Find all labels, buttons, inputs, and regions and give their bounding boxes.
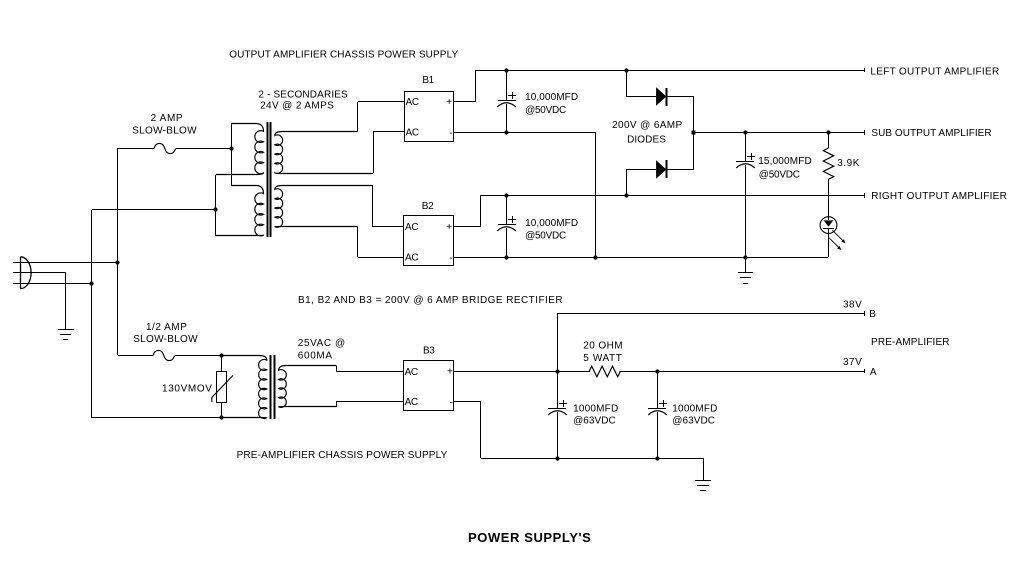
node B1 minus joins zero rail (593, 255, 597, 259)
node T1 primary top junction (229, 146, 233, 150)
wire C2 bottom lead (506, 228, 508, 257)
node diode output (692, 131, 696, 135)
ground (mains plug) (58, 330, 74, 340)
svg-text:@63VDC: @63VDC (573, 416, 616, 427)
node C2 top (504, 193, 508, 197)
wire hot to fuse F1 (118, 148, 154, 150)
terminal tick sub output (864, 130, 866, 135)
capacitor C2 10,000MFD (497, 216, 516, 231)
wire B1 minus drop (595, 133, 597, 257)
svg-text:15,000MFD: 15,000MFD (758, 156, 812, 167)
svg-text:AC: AC (406, 97, 419, 108)
ground (pre-amp supply) (695, 481, 711, 491)
wire hot vertical bus (117, 148, 119, 355)
svg-text:600MA: 600MA (298, 351, 333, 362)
bridge rectifier B1 (405, 92, 454, 142)
transformer T1 primary winding upper (216, 124, 264, 175)
node R1 top (826, 130, 830, 134)
wire B3 plus to A rail (454, 371, 864, 373)
wire C3 bottom lead (745, 165, 747, 257)
svg-text:RIGHT OUTPUT AMPLIFIER: RIGHT OUTPUT AMPLIFIER (871, 191, 1007, 202)
node C5 bottom (655, 456, 659, 460)
svg-text:200V @ 6AMP: 200V @ 6AMP (612, 120, 682, 131)
svg-text:B: B (869, 309, 876, 320)
svg-text:37V: 37V (843, 357, 862, 368)
svg-text:1000MFD: 1000MFD (672, 404, 717, 415)
svg-text:130VMOV: 130VMOV (162, 384, 213, 395)
svg-text:AC: AC (405, 397, 418, 408)
svg-text:OUTPUT AMPLIFIER CHASSIS POWER: OUTPUT AMPLIFIER CHASSIS POWER SUPPLY (229, 50, 458, 61)
node MOV bottom junction (219, 415, 223, 419)
wire neutral to T2 primary (92, 417, 259, 419)
svg-text:-: - (449, 253, 452, 264)
wire B1 minus rail (454, 132, 596, 134)
LED D3 (820, 217, 845, 250)
svg-text:1/2 AMP: 1/2 AMP (146, 322, 187, 333)
svg-text:-: - (450, 398, 453, 409)
svg-text:+: + (446, 97, 452, 108)
svg-text:AC: AC (405, 367, 418, 378)
varistor MOV 130V (212, 355, 233, 418)
wire 38V B rail (558, 313, 864, 315)
wire R1 top lead (828, 133, 830, 148)
node C1 top (504, 68, 508, 72)
wire T1 sec1 bottom to B1 AC2 (373, 132, 375, 173)
wire preamp zero rail (481, 458, 703, 460)
svg-text:24V @ 2 AMPS: 24V @ 2 AMPS (260, 101, 334, 112)
wire fuse F2 to T2 primary (175, 355, 259, 357)
AC plug P1 (21, 257, 32, 289)
svg-text:10,000MFD: 10,000MFD (525, 218, 578, 229)
node 38V takeoff (555, 369, 559, 373)
svg-text:3.9K: 3.9K (837, 158, 860, 169)
svg-text:2 - SECONDARIES: 2 - SECONDARIES (258, 90, 348, 101)
transformer T1 secondary winding lower (275, 186, 372, 228)
wire C1 bottom lead (506, 104, 508, 133)
capacitor C5 1000MFD (648, 400, 667, 415)
wire neutral vertical bus (91, 210, 93, 418)
svg-text:B1, B2 AND B3 = 200V @ 6 AMP B: B1, B2 AND B3 = 200V @ 6 AMP BRIDGE RECT… (298, 295, 563, 306)
terminal tick left output (864, 68, 866, 72)
svg-text:B2: B2 (422, 201, 434, 212)
svg-text:PRE-AMPLIFIER CHASSIS POWER SU: PRE-AMPLIFIER CHASSIS POWER SUPPLY (237, 450, 448, 461)
resistor R2 20 OHM 5 WATT (590, 366, 619, 376)
ground (output supply) (738, 273, 753, 284)
svg-text:SLOW-BLOW: SLOW-BLOW (133, 334, 198, 345)
wire D1 cathode lead (667, 96, 694, 98)
transformer T2 secondary winding (279, 366, 337, 408)
wire neutral to T1 primary (92, 209, 216, 211)
node C3 top (743, 130, 747, 134)
node C2 bottom (504, 255, 508, 259)
svg-text:LEFT OUTPUT AMPLIFIER: LEFT OUTPUT AMPLIFIER (870, 67, 999, 78)
svg-text:@50VDC: @50VDC (525, 105, 566, 116)
terminal tick A rail (864, 369, 866, 373)
svg-text:25VAC @: 25VAC @ (298, 338, 346, 349)
wire B1 plus to left rail (454, 101, 476, 103)
svg-text:PRE-AMPLIFIER: PRE-AMPLIFIER (871, 337, 950, 348)
wire D2 cathode lead (667, 169, 694, 171)
fuse F1 2 AMP SLOW-BLOW (154, 143, 176, 153)
transformer T2 primary winding (221, 356, 266, 419)
node C4 bottom (555, 456, 559, 460)
wire C5 bottom lead (657, 412, 659, 458)
wire diode cathode bus (693, 96, 695, 170)
wire C1 top lead (506, 70, 508, 100)
wire fuse F1 to T1 primary (176, 148, 232, 150)
wire left output rail (476, 70, 864, 72)
svg-text:1000MFD: 1000MFD (573, 404, 618, 415)
wire ground stub upper (745, 257, 747, 273)
wire B3 minus jog (454, 401, 481, 403)
resistor R1 3.9K (823, 148, 833, 179)
node neutral/plug junction (89, 281, 93, 285)
svg-text:20 OHM: 20 OHM (583, 341, 623, 352)
svg-text:SLOW-BLOW: SLOW-BLOW (132, 126, 197, 137)
svg-text:AC: AC (405, 222, 418, 233)
node neutral to T1 primary (213, 207, 217, 211)
node R2 right / C5 top (655, 369, 659, 373)
wire C2 top lead (506, 195, 508, 225)
wire C4 top lead (557, 371, 559, 409)
wire hot to fuse F2 (118, 355, 153, 357)
terminal tick right output (864, 193, 866, 198)
wire mains ground lead (65, 272, 67, 329)
wire C5 top lead (657, 371, 659, 409)
svg-text:10,000MFD: 10,000MFD (525, 92, 578, 103)
svg-text:POWER SUPPLY'S: POWER SUPPLY'S (468, 530, 591, 545)
svg-text:-: - (449, 128, 452, 139)
wire plug ground prong (13, 283, 92, 285)
svg-text:@63VDC: @63VDC (672, 416, 715, 427)
svg-text:@50VDC: @50VDC (525, 231, 566, 242)
svg-text:B1: B1 (422, 75, 434, 86)
node C1 bottom (504, 130, 508, 134)
node C3 bottom (743, 255, 747, 259)
wire T1 primary bottoms bus (215, 175, 217, 236)
capacitor C3 15,000MFD (736, 153, 755, 168)
svg-text:5 WATT: 5 WATT (583, 353, 622, 364)
capacitor C1 10,000MFD (497, 92, 516, 107)
node D2 feed (624, 193, 628, 197)
svg-text:+: + (446, 222, 452, 233)
wire T1 sec2 top to B2 AC1 (372, 185, 374, 226)
wire ground stub preamp (703, 458, 705, 480)
node MOV top junction (219, 353, 223, 357)
svg-text:DIODES: DIODES (627, 135, 666, 146)
wire R1 to LED (828, 179, 830, 220)
wire plug neutral prong (13, 272, 66, 274)
svg-text:38V: 38V (843, 299, 862, 310)
wire 38V riser (557, 313, 559, 371)
transformer T2 core (271, 355, 275, 419)
wire C3 top lead (745, 133, 747, 161)
wire T1 sec1 top to B1 AC1 (357, 102, 359, 131)
svg-text:A: A (870, 367, 877, 378)
wire C4 bottom lead (557, 412, 559, 458)
capacitor C4 1000MFD (548, 400, 567, 415)
wire D2 anode lead (626, 170, 628, 195)
transformer T1 secondary winding upper (275, 132, 373, 174)
svg-text:+: + (447, 367, 453, 378)
bridge rectifier B3 (404, 361, 454, 411)
wire B2 plus jog (454, 226, 481, 228)
wire right output rail (481, 195, 864, 197)
svg-text:AC: AC (406, 128, 419, 139)
diode D2 (657, 160, 667, 178)
bridge rectifier B2 (404, 216, 454, 266)
node hot/plug junction (115, 260, 119, 264)
svg-text:SUB OUTPUT AMPLIFIER: SUB OUTPUT AMPLIFIER (871, 128, 991, 139)
wire T2 sec top to B3 AC1 (336, 366, 338, 371)
svg-text:@50VDC: @50VDC (759, 170, 800, 181)
svg-text:B3: B3 (423, 346, 435, 357)
fuse F2 1/2 AMP SLOW-BLOW (153, 350, 175, 360)
wire LED to zero rail (828, 229, 830, 257)
transformer T1 core (268, 122, 271, 237)
svg-text:2 AMP: 2 AMP (151, 113, 184, 124)
transformer T1 primary winding lower (216, 186, 264, 236)
wire zero volt rail (454, 257, 828, 259)
wire sub output rail (694, 132, 864, 134)
wire T2 sec bottom to B3 AC2 (336, 401, 338, 407)
wire D1 anode lead (626, 70, 628, 96)
wire plug hot prong (13, 262, 118, 264)
svg-text:AC: AC (405, 253, 418, 264)
wire T1 primary tops bus (231, 123, 233, 186)
terminal tick B rail (864, 311, 866, 316)
wire T1 sec2 bottom to B2 AC2 (357, 227, 359, 257)
diode D1 (657, 88, 667, 106)
node diode D1 feed (624, 68, 628, 72)
